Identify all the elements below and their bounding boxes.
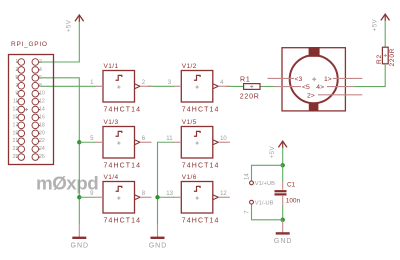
connector pin 20 <box>32 130 45 137</box>
connector pin 13 <box>13 106 25 113</box>
connector pin 23 <box>13 146 25 153</box>
svg-text:100n: 100n <box>286 197 301 204</box>
resistor R2 220R <box>376 47 396 66</box>
svg-text:mØxpd: mØxpd <box>36 173 98 194</box>
svg-text:V1/4: V1/4 <box>104 174 119 181</box>
svg-text:74HCT14: 74HCT14 <box>104 107 142 114</box>
+5V supply symbol (left) <box>66 15 84 32</box>
svg-text:R1: R1 <box>240 76 251 83</box>
svg-text:25: 25 <box>13 154 19 160</box>
inverter V1/2 <box>168 63 230 114</box>
connector pin 7 <box>15 82 24 89</box>
connector pin 24 <box>32 146 45 153</box>
svg-text:8: 8 <box>39 83 42 89</box>
svg-text:14: 14 <box>244 173 250 180</box>
connector pin 17 <box>13 122 25 129</box>
svg-text:13: 13 <box>13 107 19 113</box>
svg-text:20: 20 <box>39 130 45 136</box>
connector pin 21 <box>13 138 25 145</box>
inverter V1/4 <box>90 174 151 225</box>
connector pin 22 <box>32 138 45 145</box>
svg-text:11: 11 <box>166 136 173 142</box>
svg-text:26: 26 <box>39 154 45 160</box>
connector pin 12 <box>32 98 45 105</box>
capacitor C1 100n <box>275 181 301 205</box>
svg-text:R2: R2 <box>376 54 383 64</box>
svg-text:2: 2 <box>142 80 146 86</box>
svg-text:23: 23 <box>13 146 19 152</box>
wire: junction to C1 <box>282 165 284 182</box>
svg-text:V1/5: V1/5 <box>182 119 197 126</box>
svg-text:3: 3 <box>168 80 172 86</box>
DIN pin 5 lead <box>275 86 302 88</box>
svg-text:V1/3: V1/3 <box>104 119 119 126</box>
connector pin 19 <box>13 130 25 137</box>
junction node GND net <box>281 218 285 222</box>
svg-text:21: 21 <box>13 138 19 144</box>
svg-text:1: 1 <box>90 80 94 86</box>
svg-text:18: 18 <box>39 122 45 128</box>
wire: GND rail to V1/4 input <box>79 196 95 198</box>
svg-text:74HCT14: 74HCT14 <box>104 163 142 170</box>
svg-text:6: 6 <box>39 75 42 81</box>
svg-text:4: 4 <box>39 67 42 73</box>
svg-text:74HCT14: 74HCT14 <box>182 218 220 225</box>
svg-text:V1/-UB: V1/-UB <box>255 200 274 206</box>
wire: junction to pin 14 <box>252 165 283 181</box>
svg-text:10: 10 <box>220 136 227 142</box>
wire: C1 to bottom junction <box>282 206 284 220</box>
connector RPI_GPIO <box>9 41 54 165</box>
connector pin 26 <box>32 154 45 161</box>
wire: V1/1 out to V1/2 in <box>148 85 174 87</box>
connector pin 25 <box>13 154 25 161</box>
connector pin 3 <box>15 67 24 74</box>
svg-text:16: 16 <box>39 114 45 120</box>
svg-text:13: 13 <box>166 191 173 197</box>
DIN pin 3 lead <box>268 77 295 79</box>
DIN pin 4 lead <box>327 86 354 88</box>
connector pin 5 <box>15 75 24 82</box>
svg-text:1>: 1> <box>324 76 332 83</box>
svg-text:17: 17 <box>13 122 19 128</box>
svg-text:6: 6 <box>142 136 146 142</box>
inverter V1/3 <box>90 119 151 170</box>
connector pin 6 <box>32 75 42 82</box>
inverter V1/1 <box>90 63 151 114</box>
svg-text:10: 10 <box>39 91 45 97</box>
pin V1/+UB <box>244 173 275 187</box>
pin V1/-UB <box>244 200 273 214</box>
svg-text:4>: 4> <box>316 84 324 91</box>
junction node V1/3 input <box>77 140 81 144</box>
connector pin 8 <box>32 82 42 89</box>
DIN pin 1 lead <box>333 77 362 79</box>
wire: pin6 GND rail down <box>41 78 80 225</box>
connector pin 10 <box>32 90 45 97</box>
connector pin 14 <box>32 106 45 113</box>
svg-text:C1: C1 <box>287 181 296 188</box>
connector pin 2 <box>32 59 42 66</box>
svg-text:9: 9 <box>15 91 18 97</box>
DIN pin 2 lead <box>318 94 362 96</box>
svg-text:74HCT14: 74HCT14 <box>182 107 220 114</box>
junction node V1/4 input <box>77 195 81 199</box>
svg-text:15: 15 <box>13 114 19 120</box>
svg-text:74HCT14: 74HCT14 <box>104 218 142 225</box>
wire: GND rail to V1/3 input <box>79 141 95 143</box>
svg-text:2>: 2> <box>307 92 315 99</box>
svg-text:7: 7 <box>244 210 250 214</box>
resistor R1 220R <box>240 76 260 100</box>
svg-text:11: 11 <box>13 99 18 105</box>
svg-text:24: 24 <box>39 146 45 152</box>
connector pin 9 <box>15 90 24 97</box>
wire: R1 to DIN pin 5 <box>260 86 275 88</box>
svg-text:4: 4 <box>220 80 224 86</box>
wire: +5V to R2 <box>384 21 386 48</box>
+5V supply symbol (power section) <box>269 141 287 158</box>
svg-text:<3: <3 <box>295 76 303 83</box>
wire: +5V down to junction <box>282 147 284 165</box>
svg-text:12: 12 <box>39 99 45 105</box>
svg-text:22: 22 <box>39 138 45 144</box>
svg-text:12: 12 <box>220 191 227 197</box>
svg-text:5: 5 <box>15 75 18 81</box>
svg-text:RPI_GPIO: RPI_GPIO <box>11 41 48 48</box>
inverter V1/5 <box>166 119 230 170</box>
svg-text:14: 14 <box>39 107 45 113</box>
inverter V1/6 <box>166 174 230 225</box>
connector pin 15 <box>13 114 25 121</box>
svg-text:220R: 220R <box>389 48 396 67</box>
svg-text:5: 5 <box>90 136 94 142</box>
svg-text:19: 19 <box>13 130 19 136</box>
svg-text:V1/+UB: V1/+UB <box>255 181 275 187</box>
connector pin 18 <box>32 122 45 129</box>
svg-text:V1/2: V1/2 <box>182 63 197 70</box>
ground GND2 <box>149 225 168 250</box>
wire: rail to V1/6 input <box>158 196 175 198</box>
connector pin 4 <box>32 67 42 74</box>
svg-text:V1/1: V1/1 <box>104 63 119 70</box>
connector pin 16 <box>32 114 45 121</box>
wire: pin2 to +5V <box>41 21 80 62</box>
svg-text:74HCT14: 74HCT14 <box>182 163 220 170</box>
connector pin 1 <box>15 59 24 66</box>
wire: V1/2 out to R1 <box>227 85 244 87</box>
svg-text:2: 2 <box>39 59 42 65</box>
svg-text:3: 3 <box>15 67 18 73</box>
svg-text:<5: <5 <box>302 84 310 91</box>
ground GND3 <box>274 220 293 245</box>
svg-text:220R: 220R <box>240 93 260 100</box>
+5V supply symbol (top right) <box>371 14 389 31</box>
wire: V1/5 V1/6 input GND rail <box>158 142 175 225</box>
ground GND1 <box>71 225 90 250</box>
DIN connector <box>268 47 363 111</box>
svg-text:7: 7 <box>15 83 18 89</box>
connector pin 11 <box>13 98 25 105</box>
junction node V1/6 input <box>155 195 159 199</box>
svg-text:8: 8 <box>142 191 146 197</box>
wire: R2 to DIN pin 4 <box>354 64 385 87</box>
svg-text:1: 1 <box>15 59 18 65</box>
svg-text:V1/6: V1/6 <box>182 174 197 181</box>
wire: junction to pin 7 <box>252 204 283 220</box>
wire: pin8 to V1/1 input <box>41 85 96 87</box>
junction node VCC <box>281 163 285 167</box>
